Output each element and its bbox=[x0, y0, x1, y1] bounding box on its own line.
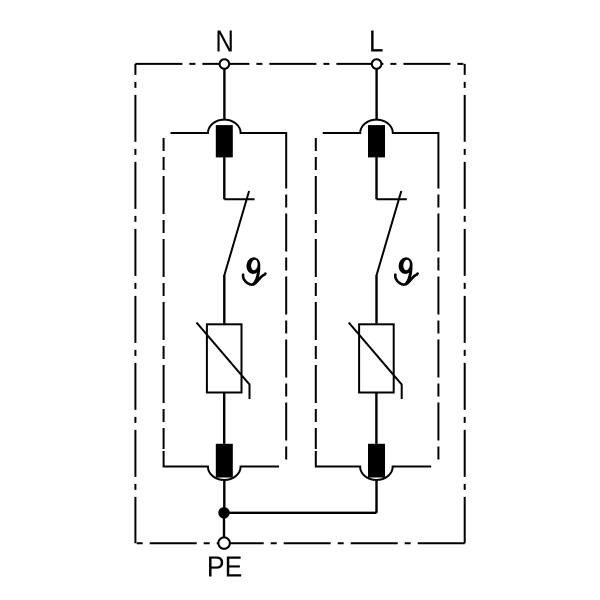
terminal L circle bbox=[372, 59, 382, 69]
svg-text:PE: PE bbox=[207, 552, 242, 584]
thermal disconnector switch 2 fixed contact tick bbox=[377, 198, 407, 200]
wire from module 1 bottom contact to PE junction bbox=[223, 480, 225, 513]
module 2 bottom contact blade (filled) bbox=[368, 444, 385, 478]
temperature symbol theta (left) bottom swash bbox=[243, 274, 265, 285]
wire from disconnector 1 to varistor 1 bbox=[223, 275, 225, 323]
wire from junction to terminal PE bbox=[223, 513, 225, 537]
terminal PE circle bbox=[218, 537, 229, 548]
varistor 2 strike-through with tail bbox=[349, 323, 402, 400]
wire from terminal L to module 2 contact bbox=[375, 69, 377, 121]
wire from disconnector 2 to varistor 2 bbox=[375, 275, 377, 323]
module 2 bottom edge with plug contact bump bbox=[316, 451, 431, 480]
wire from varistor 1 to bottom contact bbox=[223, 393, 225, 444]
temperature symbol theta (left) descender bbox=[254, 268, 259, 284]
wire from module 2 branch to PE junction bbox=[224, 512, 377, 514]
module 1 bottom contact blade (filled) bbox=[216, 444, 233, 478]
PE junction dot bbox=[218, 507, 229, 518]
wire from module 2 bottom contact down bbox=[375, 480, 377, 513]
wire from terminal N to module 1 contact bbox=[223, 69, 225, 121]
wire from varistor 2 to bottom contact bbox=[375, 393, 377, 444]
temperature symbol theta (left) loop bbox=[245, 256, 261, 274]
varistor 1 strike-through with tail bbox=[197, 323, 250, 400]
wire from top contact to disconnector 2 bbox=[375, 157, 377, 199]
protection module box 1 right edge (dashed) bbox=[285, 151, 287, 465]
temperature symbol theta (right) bottom swash bbox=[395, 274, 417, 285]
module 2 top edge with plug contact bump bbox=[323, 120, 439, 151]
terminal N circle bbox=[220, 59, 230, 69]
module 1 top contact blade (filled) bbox=[216, 125, 233, 157]
varistor 1 body bbox=[207, 324, 242, 392]
varistor 2 body bbox=[359, 324, 394, 392]
module 2 top contact blade (filled) bbox=[368, 125, 385, 157]
wire from top contact to disconnector 1 bbox=[223, 157, 225, 199]
protection module box 2 left edge (dashed) bbox=[315, 138, 317, 449]
temperature symbol theta (right) loop bbox=[398, 256, 414, 274]
temperature symbol theta (right) descender bbox=[406, 268, 411, 284]
thermal disconnector switch 1 blade bbox=[224, 191, 249, 275]
module 1 top edge with plug contact bump bbox=[171, 120, 287, 151]
protection module box 1 left edge (dashed) bbox=[163, 138, 165, 449]
enclosure outline left edge (dash-dot) bbox=[134, 64, 136, 543]
svg-text:L: L bbox=[369, 23, 384, 58]
enclosure outline bottom edge (dash-dot) bbox=[135, 542, 464, 544]
protection module box 2 right edge (dashed) bbox=[437, 151, 439, 465]
thermal disconnector switch 1 fixed contact tick bbox=[224, 198, 254, 200]
module 1 bottom edge with plug contact bump bbox=[164, 451, 279, 480]
enclosure outline top edge (dash-dot) bbox=[135, 63, 464, 65]
enclosure outline right edge (dash-dot) bbox=[464, 64, 466, 543]
thermal disconnector switch 2 blade bbox=[377, 191, 402, 275]
svg-text:N: N bbox=[215, 23, 234, 58]
